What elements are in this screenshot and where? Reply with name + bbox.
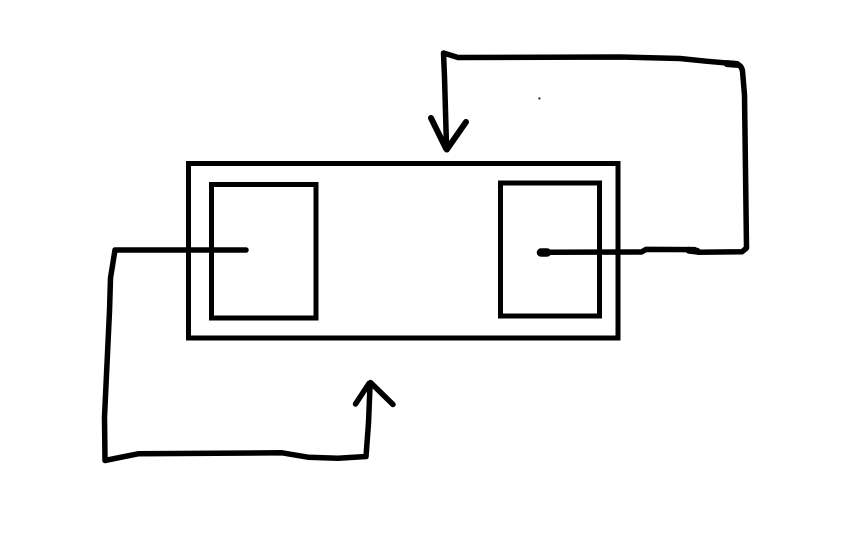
arrowhead down: [431, 118, 466, 150]
wire left loop: [105, 250, 371, 461]
wire overlap blob near corner: [727, 60, 737, 68]
wire overlap blob at step: [689, 247, 697, 255]
stray dot: [538, 97, 540, 99]
left inner box: [212, 185, 317, 319]
arrowhead up: [356, 383, 394, 405]
wire right loop: [444, 53, 747, 252]
outer box: [189, 164, 619, 339]
right inner box: [501, 183, 600, 316]
wire end blob: [541, 248, 547, 257]
